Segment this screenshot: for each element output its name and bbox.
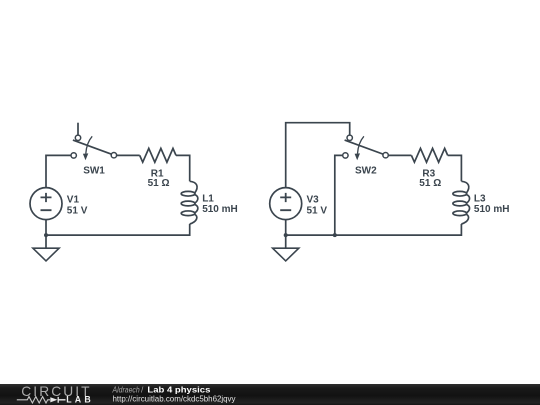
SW1 throw stub wire — [77, 123, 79, 136]
svg-text:V3: V3 — [307, 195, 320, 206]
CircuitLab logo schematic squiggle: wire + resistor — [17, 397, 50, 403]
wire: R1 to L1 top — [176, 155, 190, 181]
SW2 left terminal — [343, 153, 348, 158]
svg-text:LAB: LAB — [66, 395, 94, 405]
inductor L3 — [453, 181, 470, 224]
svg-text:51 V: 51 V — [307, 206, 328, 217]
resistor R3 — [411, 148, 447, 162]
voltage source V1 — [30, 188, 62, 220]
wire: V3 top lead up and across to SW2 upper terminal — [286, 123, 350, 188]
inductor L1 — [181, 181, 198, 224]
svg-text:http://circuitlab.com/ckdc5bh6: http://circuitlab.com/ckdc5bh62jqvy — [113, 393, 237, 403]
svg-text:L3: L3 — [474, 193, 486, 204]
wire: node to ground GND2 — [285, 235, 287, 248]
resistor R1 — [140, 148, 176, 162]
node: V1 minus / ground junction — [44, 233, 48, 237]
wire: L1 bottom to ground rail — [46, 224, 190, 235]
wire: V1 top lead up and right to SW1 left terminal — [46, 155, 71, 187]
svg-text:51 V: 51 V — [67, 206, 88, 217]
CircuitLab logo diode — [50, 397, 57, 402]
ground GND1 — [33, 248, 59, 261]
svg-text:SW1: SW1 — [83, 165, 105, 176]
wire: SW2 left terminal down to bottom rail — [335, 155, 343, 235]
footer bar — [0, 384, 540, 405]
wire: R3 to L3 top — [448, 155, 462, 181]
svg-text:510 mH: 510 mH — [474, 204, 510, 215]
SW1 actuation arrow — [86, 136, 92, 153]
svg-text:SW2: SW2 — [355, 165, 377, 176]
wire: SW2 to R3 — [388, 154, 411, 156]
switch SW1 — [71, 123, 117, 161]
wire: node to ground GND1 — [45, 235, 47, 248]
wire: L3 bottom to bottom rail — [286, 224, 462, 235]
svg-text:51 Ω: 51 Ω — [148, 178, 170, 189]
node: V3 minus / ground junction — [284, 233, 288, 237]
node: SW2 return / bottom rail junction — [333, 233, 337, 237]
switch SW2 — [343, 135, 389, 160]
ground GND2 — [273, 248, 299, 261]
wire: V3 bottom lead to ground node — [285, 220, 287, 236]
SW1 right terminal — [111, 153, 116, 158]
SW1 blade — [73, 140, 112, 154]
svg-text:V1: V1 — [67, 195, 80, 206]
svg-text:51 Ω: 51 Ω — [419, 178, 441, 189]
wire: SW1 to R1 — [117, 154, 140, 156]
SW2 upper terminal — [347, 135, 352, 140]
svg-text:L1: L1 — [202, 193, 214, 204]
svg-text:510 mH: 510 mH — [202, 204, 238, 215]
SW1 left terminal — [71, 153, 76, 158]
SW2 actuation arrow — [358, 136, 364, 153]
SW2 blade — [345, 140, 384, 154]
SW2 right terminal — [383, 153, 388, 158]
wire: V1 bottom lead to ground node — [45, 220, 47, 236]
voltage source V3 — [270, 188, 302, 220]
SW1 upper terminal — [75, 135, 80, 140]
